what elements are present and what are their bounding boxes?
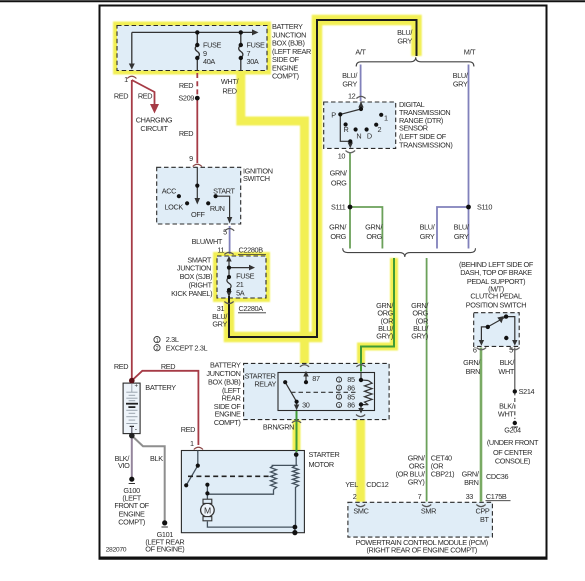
svg-text:SMR: SMR <box>421 507 436 516</box>
svg-text:SWITCH: SWITCH <box>243 174 270 183</box>
svg-text:S209: S209 <box>178 94 194 103</box>
svg-text:(UNDER FRONT: (UNDER FRONT <box>487 438 539 447</box>
svg-text:2: 2 <box>378 125 382 134</box>
svg-text:86: 86 <box>347 401 355 410</box>
svg-text:86: 86 <box>347 383 355 392</box>
svg-text:10: 10 <box>338 152 346 161</box>
svg-text:BLK: BLK <box>150 454 163 463</box>
svg-text:GRN/: GRN/ <box>329 223 347 232</box>
svg-text:1: 1 <box>384 114 388 123</box>
svg-text:P: P <box>331 111 336 120</box>
svg-text:EXCEPT 2.3L: EXCEPT 2.3L <box>166 343 208 352</box>
svg-text:1: 1 <box>190 439 194 448</box>
svg-text:M: M <box>204 505 211 515</box>
svg-text:BRN: BRN <box>464 478 478 487</box>
svg-text:S214: S214 <box>519 387 535 396</box>
svg-text:COMPT): COMPT) <box>214 418 241 427</box>
svg-text:SMC: SMC <box>353 507 368 516</box>
svg-text:1: 1 <box>124 75 128 84</box>
svg-text:RED: RED <box>222 87 236 96</box>
svg-text:5: 5 <box>509 345 513 354</box>
svg-text:GRY: GRY <box>212 319 227 328</box>
svg-text:5A: 5A <box>236 288 245 297</box>
svg-text:ORG: ORG <box>331 178 347 187</box>
svg-text:30: 30 <box>302 401 310 410</box>
svg-text:BLU/: BLU/ <box>420 223 436 232</box>
svg-text:POSITION SWITCH: POSITION SWITCH <box>466 300 527 309</box>
svg-text:GRY: GRY <box>453 80 468 89</box>
svg-text:STARTER: STARTER <box>309 450 340 459</box>
svg-text:GRY: GRY <box>454 232 469 241</box>
svg-text:282070: 282070 <box>106 547 127 554</box>
svg-text:CLUTCH PEDAL: CLUTCH PEDAL <box>470 292 522 301</box>
svg-text:ORG: ORG <box>330 232 346 241</box>
svg-text:GRY): GRY) <box>411 332 428 341</box>
svg-text:GRY: GRY <box>420 232 435 241</box>
svg-text:GRN/: GRN/ <box>463 358 481 367</box>
svg-text:7: 7 <box>418 492 422 501</box>
svg-text:GRN/: GRN/ <box>365 223 383 232</box>
svg-text:RED: RED <box>114 92 128 101</box>
svg-text:GRN/: GRN/ <box>330 169 348 178</box>
svg-text:DASH, TOP OF BRAKE: DASH, TOP OF BRAKE <box>460 268 532 277</box>
svg-text:CBP21): CBP21) <box>431 470 454 479</box>
svg-text:S110: S110 <box>477 203 492 212</box>
svg-text:RED: RED <box>181 425 195 434</box>
svg-text:COMPT): COMPT) <box>272 72 299 81</box>
svg-text:9: 9 <box>189 154 193 163</box>
svg-text:11: 11 <box>217 246 224 255</box>
svg-text:12: 12 <box>348 92 356 101</box>
svg-text:RED: RED <box>138 92 152 101</box>
svg-text:ORG: ORG <box>366 232 382 241</box>
svg-text:WHT: WHT <box>498 367 514 376</box>
svg-text:GRY): GRY) <box>408 478 425 487</box>
svg-text:KICK PANEL): KICK PANEL) <box>171 289 212 298</box>
svg-text:YEL: YEL <box>345 480 358 489</box>
svg-text:OFF: OFF <box>191 210 205 219</box>
svg-text:COMPT): COMPT) <box>118 518 145 527</box>
svg-text:(RIGHT REAR OF ENGINE COMPT): (RIGHT REAR OF ENGINE COMPT) <box>366 546 476 555</box>
svg-text:RED: RED <box>179 129 193 138</box>
svg-text:GRY: GRY <box>342 80 357 89</box>
svg-text:START: START <box>213 186 235 195</box>
svg-text:CDC12: CDC12 <box>366 480 388 489</box>
svg-text:A/T: A/T <box>355 48 366 57</box>
svg-text:BRN/GRN: BRN/GRN <box>263 423 294 432</box>
svg-text:D: D <box>367 131 372 140</box>
svg-text:6: 6 <box>473 345 477 354</box>
svg-text:RED: RED <box>179 81 193 90</box>
svg-text:G204: G204 <box>504 425 521 434</box>
svg-text:(LEFT SIDE OF: (LEFT SIDE OF <box>399 132 447 141</box>
svg-text:33: 33 <box>466 492 474 501</box>
svg-text:C2280B: C2280B <box>239 246 264 255</box>
svg-text:R: R <box>343 125 348 134</box>
svg-text:TRANSMISSION): TRANSMISSION) <box>399 141 452 150</box>
svg-text:BATTERY: BATTERY <box>145 383 176 392</box>
svg-text:5: 5 <box>223 227 227 236</box>
svg-text:S111: S111 <box>331 203 346 212</box>
svg-text:WHT: WHT <box>498 409 514 418</box>
svg-text:LOCK: LOCK <box>164 203 183 212</box>
svg-text:2: 2 <box>353 492 357 501</box>
svg-text:87: 87 <box>312 374 320 383</box>
svg-text:MOTOR: MOTOR <box>309 460 334 469</box>
svg-text:OF ENGINE): OF ENGINE) <box>145 545 184 554</box>
svg-text:N: N <box>356 132 361 141</box>
svg-text:C2280A: C2280A <box>239 304 264 313</box>
svg-text:GRY): GRY) <box>376 332 393 341</box>
svg-text:BT: BT <box>480 515 490 524</box>
svg-text:GRY: GRY <box>397 37 412 46</box>
svg-text:CDC36: CDC36 <box>486 472 508 481</box>
svg-text:BRN: BRN <box>466 367 480 376</box>
svg-text:RED: RED <box>114 362 128 371</box>
svg-text:CONSOLE): CONSOLE) <box>495 456 530 465</box>
svg-text:BLU/WHT: BLU/WHT <box>192 237 223 246</box>
svg-text:M/T: M/T <box>464 48 476 57</box>
svg-text:WHT/: WHT/ <box>221 77 240 86</box>
svg-text:ACC: ACC <box>162 186 176 195</box>
svg-text:RELAY: RELAY <box>254 379 276 388</box>
svg-text:VIO: VIO <box>118 461 130 470</box>
svg-text:JUNCTION: JUNCTION <box>206 369 240 378</box>
svg-text:CIRCUIT: CIRCUIT <box>140 124 168 133</box>
svg-text:40A: 40A <box>203 57 215 66</box>
svg-text:BLK/: BLK/ <box>500 358 516 367</box>
svg-text:RED: RED <box>161 362 175 371</box>
svg-text:C175B: C175B <box>486 492 507 501</box>
svg-text:RUN: RUN <box>210 204 225 213</box>
svg-text:30A: 30A <box>247 57 259 66</box>
svg-text:BLU/: BLU/ <box>454 223 470 232</box>
